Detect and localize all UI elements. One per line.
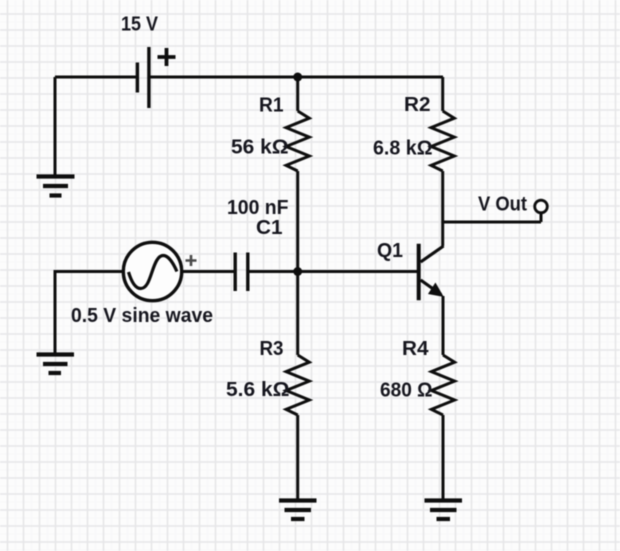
V Out terminal circle — [535, 200, 548, 213]
svg-text:56 kΩ: 56 kΩ — [231, 137, 289, 159]
node A junction dot (top rail / R1) — [293, 73, 302, 82]
svg-text:R4: R4 — [402, 338, 429, 360]
wire R1 bottom through node B to R3 top — [296, 171, 299, 355]
wire top rail left of battery — [55, 76, 136, 79]
wire R1 branch top — [296, 77, 299, 111]
wire R2 bottom to collector — [441, 171, 444, 246]
node B junction dot (cap / base / R1-R3) — [293, 267, 302, 276]
ground G4 (R4) — [425, 501, 463, 520]
svg-text:6.8 kΩ: 6.8 kΩ — [373, 138, 433, 160]
wire R3 bottom to ground G3 — [296, 415, 299, 500]
capacitor C1 — [235, 253, 248, 292]
transistor Q1 — [419, 244, 444, 300]
svg-text:15 V: 15 V — [121, 14, 159, 36]
svg-text:R3: R3 — [260, 338, 284, 360]
wire left drop to ground G1 — [54, 77, 57, 176]
svg-text:V Out: V Out — [478, 194, 527, 216]
resistor R2 — [431, 111, 454, 171]
source VS sine generator — [123, 242, 196, 300]
wire top rail right of battery — [150, 76, 443, 79]
resistor R3 — [286, 355, 309, 415]
svg-text:C1: C1 — [256, 217, 283, 239]
ground G2 (source) — [37, 355, 75, 374]
svg-text:Q1: Q1 — [377, 240, 403, 262]
wire V Out stub to terminal — [540, 213, 543, 222]
resistor R4 — [431, 355, 454, 415]
svg-text:680 Ω: 680 Ω — [380, 380, 433, 402]
svg-text:5.6 kΩ: 5.6 kΩ — [226, 379, 290, 401]
wire R2 top from rail — [441, 77, 444, 111]
wire source right lead to capacitor — [182, 270, 234, 273]
wire emitter drop to R4 — [442, 296, 445, 355]
wire R4 bottom to ground G4 — [442, 415, 445, 500]
wire V Out horizontal — [443, 221, 541, 224]
battery V1 15V — [137, 47, 175, 108]
svg-text:R2: R2 — [404, 94, 431, 116]
ground G3 (R3) — [279, 501, 317, 520]
wire capacitor to base — [249, 270, 417, 273]
svg-text:100 nF: 100 nF — [227, 197, 289, 219]
svg-text:R1: R1 — [259, 95, 284, 117]
ground G1 (battery negative) — [37, 177, 75, 196]
resistor R1 — [286, 111, 309, 171]
wire source left lead to corner — [55, 272, 123, 355]
svg-text:0.5 V sine wave: 0.5 V sine wave — [71, 305, 213, 327]
